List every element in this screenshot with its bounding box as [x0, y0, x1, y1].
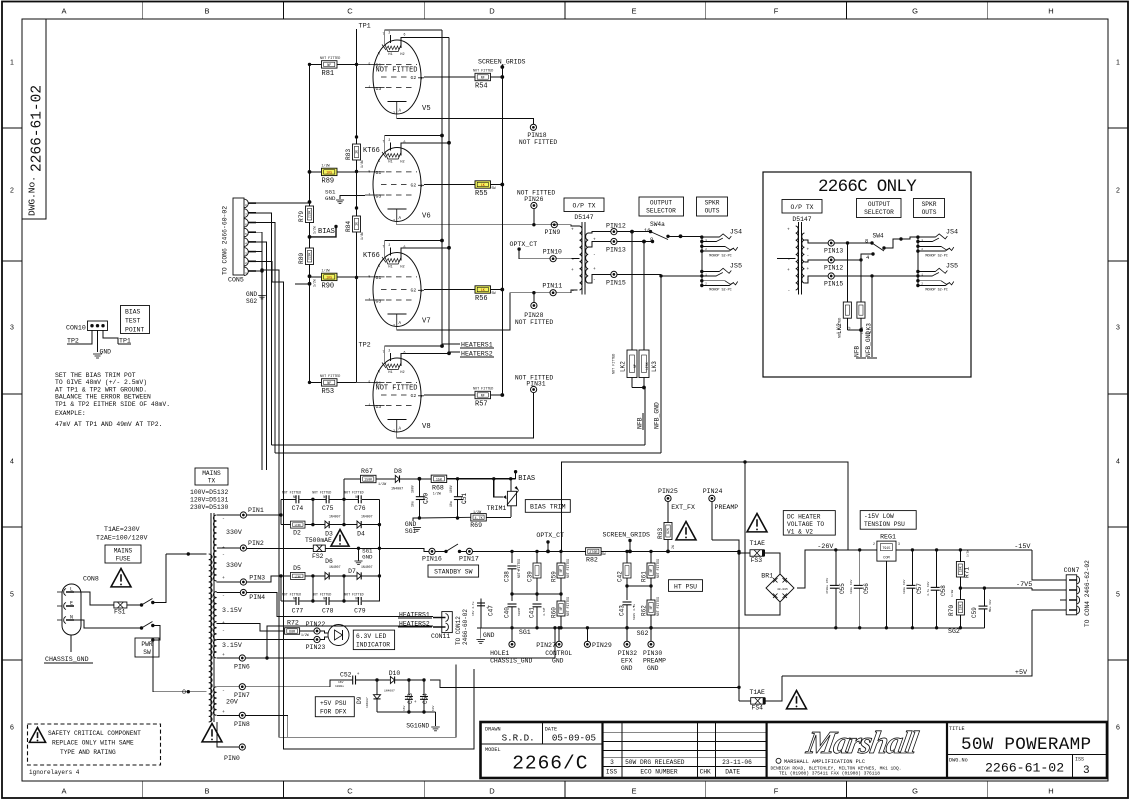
wire R57 to bus	[424, 394, 475, 396]
title block ECO table	[765, 722, 767, 778]
wire +5V to con7	[1032, 609, 1066, 611]
svg-text:330V: 330V	[226, 529, 242, 536]
svg-text:DWG.No.: DWG.No.	[27, 176, 38, 216]
svg-text:-: -	[807, 278, 810, 283]
svg-text:HEATERS1: HEATERS1	[461, 342, 493, 349]
net NFB_GND	[660, 274, 662, 453]
svg-text:R53: R53	[322, 388, 335, 396]
svg-text:NOT FITTED: NOT FITTED	[656, 559, 660, 578]
svg-text:1: 1	[1116, 60, 1120, 67]
svg-text:PIN27: PIN27	[536, 642, 556, 649]
svg-text:NFB_GND: NFB_GND	[654, 402, 661, 429]
pin PIN13 (2266C)	[828, 240, 834, 246]
ground SG1 GND (HT centre tap)	[358, 548, 360, 560]
svg-text:JS5: JS5	[946, 263, 958, 271]
svg-text:TO CON6 2466-60-02: TO CON6 2466-60-02	[222, 206, 229, 275]
svg-text:NOT FITTED: NOT FITTED	[312, 491, 331, 495]
svg-text:+: +	[357, 672, 360, 677]
svg-text:EFX: EFX	[621, 658, 633, 665]
svg-text:LINK: LINK	[645, 362, 649, 370]
svg-text:0: 0	[182, 689, 186, 697]
wire PIN6 run	[245, 628, 555, 658]
pin PIN15 (2266C)	[828, 273, 834, 279]
svg-text:270R: 270R	[589, 551, 597, 555]
svg-text:PIN13: PIN13	[606, 247, 626, 254]
warning triangle bottom	[202, 724, 222, 742]
resistor R68	[431, 475, 447, 482]
wire heater stub 7	[385, 241, 442, 243]
svg-text:NF: NF	[559, 569, 563, 573]
wire V6 anode to OPT top	[397, 222, 578, 227]
svg-text:R90: R90	[322, 282, 335, 290]
svg-text:2266-61-02: 2266-61-02	[985, 761, 1064, 776]
svg-text:-: -	[572, 289, 575, 294]
svg-text:NFB_GND: NFB_GND	[865, 331, 872, 357]
svg-text:PIN15: PIN15	[824, 281, 843, 288]
svg-text:2466-60-02: 2466-60-02	[462, 609, 469, 645]
svg-text:1/4W: 1/4W	[360, 160, 364, 168]
svg-text:NF: NF	[481, 77, 485, 81]
wire PIN4 to heaters1	[247, 593, 433, 617]
svg-text:V6: V6	[422, 213, 431, 221]
wire R90 to grid	[310, 276, 322, 278]
svg-text:TO GIVE 48mV (+/- 2.5mV): TO GIVE 48mV (+/- 2.5mV)	[55, 379, 147, 386]
wire heater bus 2	[401, 37, 449, 39]
pin PIN13 (main)	[611, 238, 617, 244]
svg-text:R70: R70	[948, 605, 955, 616]
wire mains primary top	[166, 553, 207, 555]
svg-text:2: 2	[1116, 188, 1120, 195]
svg-text:GND: GND	[647, 665, 659, 672]
svg-text:D7: D7	[348, 568, 356, 575]
svg-text:KT66: KT66	[363, 252, 380, 260]
svg-text:T1AE=230V: T1AE=230V	[104, 526, 140, 533]
svg-text:C79: C79	[354, 608, 366, 615]
wire 3.15V taps	[217, 624, 270, 632]
svg-text:C75: C75	[322, 505, 334, 512]
svg-text:-: -	[222, 629, 225, 634]
svg-text:1/2W: 1/2W	[378, 482, 387, 487]
svg-text:5: 5	[1116, 592, 1120, 599]
O/P TX primary coil (2266C)	[796, 226, 799, 290]
svg-text:C40: C40	[504, 607, 511, 618]
svg-text:120V=D5131: 120V=D5131	[190, 497, 229, 504]
svg-text:15K: 15K	[436, 478, 443, 482]
svg-text:NOT FITTED: NOT FITTED	[344, 491, 363, 495]
mains transformer heater secondary	[213, 592, 216, 659]
wire heater stub 7	[385, 346, 442, 348]
svg-text:POINT: POINT	[125, 327, 144, 334]
svg-text:NOT FITTED: NOT FITTED	[344, 593, 363, 597]
svg-text:NF: NF	[327, 382, 331, 386]
svg-text:OUTS: OUTS	[922, 209, 937, 216]
pin PIN11	[550, 290, 556, 296]
SPKR OUTS box (main)	[697, 197, 728, 216]
svg-text:SW4a: SW4a	[650, 221, 665, 228]
svg-text:PIN28: PIN28	[524, 312, 543, 319]
pin PIN0	[217, 722, 239, 747]
svg-text:1000u: 1000u	[335, 685, 344, 688]
svg-text:A: A	[61, 787, 66, 796]
svg-text:GND: GND	[405, 521, 417, 528]
svg-text:PIN13: PIN13	[824, 248, 843, 255]
svg-text:1/2W: 1/2W	[322, 268, 331, 273]
diode D2 link	[291, 521, 306, 528]
svg-text:TP2: TP2	[67, 338, 79, 345]
ground GND SG1 (bias)	[413, 518, 419, 521]
svg-text:NOT FITTED: NOT FITTED	[515, 319, 554, 326]
svg-text:1/2W: 1/2W	[313, 279, 317, 287]
svg-text:PIN3: PIN3	[249, 575, 265, 582]
svg-text:330V: 330V	[226, 562, 242, 569]
svg-text:R80: R80	[298, 253, 305, 264]
svg-text:NF: NF	[633, 364, 637, 368]
wire jacks common (2266C)	[901, 237, 918, 239]
svg-text:+: +	[787, 228, 790, 233]
tube V6	[356, 138, 424, 223]
svg-text:NF: NF	[849, 326, 852, 330]
svg-text:2266/C: 2266/C	[512, 753, 588, 775]
box 6.3V LED INDICATOR	[353, 630, 394, 650]
svg-text:1N4007: 1N4007	[391, 488, 403, 492]
svg-text:C47: C47	[488, 605, 495, 616]
pin PIN7	[217, 686, 240, 688]
svg-text:16V: 16V	[403, 705, 406, 711]
svg-text:CHK: CHK	[700, 769, 711, 776]
svg-text:10K: 10K	[959, 566, 963, 572]
pin PIN27 CONTROL GND	[556, 641, 562, 647]
wire CON5 pin1 / gnd	[256, 271, 262, 294]
component R60	[560, 594, 562, 601]
capacitor C58	[935, 548, 938, 551]
svg-text:BALANCE THE ERROR BETWEEN: BALANCE THE ERROR BETWEEN	[55, 394, 151, 401]
svg-text:SCREEN_GRIDS: SCREEN_GRIDS	[603, 532, 651, 539]
svg-text:V5: V5	[422, 105, 431, 113]
svg-text:O/P TX: O/P TX	[790, 204, 813, 211]
box HT PSU	[669, 580, 703, 592]
svg-text:PREAMP: PREAMP	[715, 504, 739, 511]
svg-text:4.7u: 4.7u	[543, 609, 546, 616]
svg-text:47mV AT TP1 AND 49mV AT TP2.: 47mV AT TP1 AND 49mV AT TP2.	[55, 421, 162, 428]
svg-text:10u: 10u	[411, 501, 415, 507]
svg-text:OPTX_CT: OPTX_CT	[536, 532, 564, 539]
resistor R70	[959, 588, 961, 599]
svg-text:TP1: TP1	[119, 338, 131, 345]
component C42	[626, 551, 628, 563]
svg-text:MARSHALL AMPLIFICATION PLC: MARSHALL AMPLIFICATION PLC	[784, 759, 865, 765]
svg-text:DWG.No: DWG.No	[949, 758, 968, 764]
svg-text:NOT FITTED: NOT FITTED	[312, 593, 331, 597]
svg-text:NOT FITTED: NOT FITTED	[376, 385, 418, 393]
svg-text:-: -	[222, 689, 225, 694]
svg-text:NF: NF	[649, 606, 653, 610]
svg-text:FS3: FS3	[751, 557, 763, 564]
warning triangle FS3	[747, 514, 767, 532]
svg-text:TP2: TP2	[359, 342, 371, 350]
chassis ground	[70, 635, 72, 652]
svg-text:NFB: NFB	[854, 346, 861, 357]
svg-text:ECO NUMBER: ECO NUMBER	[640, 769, 677, 776]
svg-text:05-09-05: 05-09-05	[552, 733, 596, 744]
mains transformer core	[210, 513, 212, 722]
svg-text:OPTX_CT: OPTX_CT	[510, 241, 538, 248]
node BIAS	[310, 227, 337, 237]
svg-text:100V: 100V	[411, 485, 415, 493]
wire rect to bias row R67	[343, 479, 345, 499]
svg-text:100u 63V: 100u 63V	[850, 579, 853, 594]
svg-text:BIAS TRIM: BIAS TRIM	[530, 504, 566, 511]
svg-text:OUTPUT: OUTPUT	[868, 201, 891, 208]
svg-text:PIN12: PIN12	[824, 265, 843, 272]
svg-text:C76: C76	[354, 505, 366, 512]
ground below CON10	[97, 330, 99, 352]
wire pin7 to C52	[245, 680, 352, 687]
HT rail	[473, 550, 586, 552]
note: safety critical component box	[28, 724, 161, 765]
resistor R84	[353, 216, 361, 232]
svg-text:R55: R55	[475, 190, 488, 198]
O/P TX secondary coil	[586, 233, 589, 283]
capacitor C56	[858, 548, 861, 551]
SPKR OUTS box (2266C)	[914, 199, 945, 218]
svg-text:82K: 82K	[666, 528, 670, 534]
svg-text:3: 3	[610, 759, 614, 766]
svg-text:C: C	[347, 787, 353, 796]
OUTPUT SELECTOR box (2266C)	[857, 199, 902, 218]
svg-text:F: F	[774, 787, 779, 796]
svg-text:PIN23: PIN23	[306, 644, 326, 651]
wire CON5 pin2 run	[256, 261, 474, 749]
svg-text:GND: GND	[552, 658, 564, 665]
svg-text:D8: D8	[394, 468, 402, 475]
warning triangle FS2	[331, 530, 349, 547]
svg-text:TX: TX	[208, 478, 216, 485]
svg-text:INDICATOR: INDICATOR	[356, 642, 390, 649]
mains transformer HT secondary	[213, 515, 216, 581]
rail +5V	[782, 610, 1032, 676]
svg-text:NOT FITTED: NOT FITTED	[320, 375, 340, 379]
wire HT out to standby	[379, 548, 429, 551]
wire bridge bottom to heater line	[745, 462, 780, 615]
svg-text:-: -	[593, 278, 596, 283]
svg-text:D9: D9	[356, 696, 363, 704]
svg-text:R54: R54	[475, 83, 488, 91]
svg-text:-: -	[593, 253, 596, 258]
svg-text:LK2: LK2	[836, 323, 843, 334]
resistor R71	[959, 548, 962, 551]
svg-text:C39: C39	[527, 571, 534, 582]
svg-text:R72: R72	[287, 620, 299, 627]
svg-text:R81: R81	[322, 70, 335, 78]
svg-text:PIN8: PIN8	[234, 721, 250, 728]
capacitor C47	[480, 598, 482, 628]
svg-text:FS1: FS1	[114, 609, 126, 616]
svg-text:NOT FITTED: NOT FITTED	[656, 597, 660, 616]
svg-text:AT TP1 & TP2 WRT GROUND.: AT TP1 & TP2 WRT GROUND.	[55, 386, 147, 393]
svg-text:HOLE1: HOLE1	[490, 650, 509, 657]
svg-text:FUSE: FUSE	[116, 556, 131, 563]
svg-text:G: G	[912, 7, 918, 16]
ground rail SG1/SG2	[477, 627, 984, 629]
svg-text:PIN16: PIN16	[422, 556, 442, 563]
svg-text:GND: GND	[483, 632, 495, 639]
capacitor C55	[834, 548, 837, 551]
svg-text:E: E	[631, 7, 636, 16]
svg-text:V1 & V2: V1 & V2	[787, 529, 813, 536]
svg-text:FOR DFX: FOR DFX	[320, 709, 347, 716]
wire R90 left	[310, 276, 322, 278]
svg-text:NOT FITTED: NOT FITTED	[376, 67, 418, 75]
svg-text:-15V: -15V	[1014, 543, 1031, 551]
wire gnd to con7	[1060, 599, 1066, 601]
svg-text:SELECTOR: SELECTOR	[864, 209, 894, 216]
svg-text:SCREEN_GRIDS: SCREEN_GRIDS	[478, 59, 526, 66]
wire CON5 pin3 run	[256, 252, 456, 738]
svg-text:SELECTOR: SELECTOR	[646, 208, 676, 215]
svg-text:C78: C78	[322, 608, 334, 615]
svg-text:E: E	[631, 787, 636, 796]
capacitor C59	[983, 586, 986, 589]
svg-text:NOT FITTED: NOT FITTED	[473, 388, 493, 392]
svg-text:100V: 100V	[449, 485, 453, 493]
svg-text:GND: GND	[362, 554, 373, 561]
svg-text:+5V PSU: +5V PSU	[320, 700, 347, 707]
title block left section	[601, 722, 603, 778]
svg-text:R69: R69	[470, 522, 482, 529]
svg-text:PIN0: PIN0	[224, 755, 240, 762]
svg-text:PIN4: PIN4	[249, 594, 265, 601]
svg-text:SW4: SW4	[873, 233, 884, 240]
svg-text:C42: C42	[617, 571, 624, 582]
svg-text:BIAS: BIAS	[518, 475, 535, 483]
wire dc heater run	[562, 462, 849, 551]
capacitor C51	[457, 479, 459, 497]
svg-text:D2: D2	[293, 530, 301, 537]
warning triangle (mains fuse)	[111, 569, 131, 587]
svg-text:-15V LOW: -15V LOW	[864, 513, 894, 520]
svg-text:+: +	[571, 228, 574, 233]
box 2266C ONLY	[763, 172, 971, 377]
svg-text:MAINS: MAINS	[202, 470, 221, 477]
wire heater stub 6	[401, 143, 449, 145]
svg-text:HEATERS1: HEATERS1	[399, 612, 430, 619]
svg-text:MAINS: MAINS	[114, 548, 133, 555]
pin HOLE1 CHASSIS_GND	[509, 641, 515, 647]
component C43	[626, 586, 628, 600]
O/P TX core (2266C)	[797, 222, 799, 295]
svg-text:PIN30: PIN30	[643, 650, 662, 657]
svg-text:EXT_FX: EXT_FX	[671, 504, 695, 511]
svg-text:+5V: +5V	[1015, 669, 1028, 677]
svg-text:LK3: LK3	[651, 361, 658, 372]
O/P TX core	[581, 222, 583, 295]
wire bias bottom row	[419, 516, 470, 519]
svg-text:H: H	[1048, 7, 1053, 16]
resistor R82	[586, 548, 602, 555]
svg-text:-: -	[788, 289, 791, 294]
svg-text:C59: C59	[971, 607, 978, 618]
svg-text:+: +	[593, 238, 596, 243]
svg-text:4: 4	[10, 459, 14, 466]
svg-text:PIN6: PIN6	[234, 664, 250, 671]
pin PIN12 (2266C)	[828, 257, 834, 263]
svg-text:+: +	[807, 248, 810, 253]
svg-text:-: -	[788, 258, 791, 263]
svg-text:+: +	[593, 267, 596, 272]
svg-text:R89: R89	[322, 177, 335, 185]
svg-text:ISS: ISS	[606, 769, 617, 776]
svg-text:NOT FITTED: NOT FITTED	[282, 593, 301, 597]
svg-text:NOT FITTED: NOT FITTED	[519, 139, 558, 146]
title block	[481, 722, 1108, 778]
svg-text:63V: 63V	[432, 705, 435, 711]
wire R53 to grid	[310, 381, 322, 383]
svg-text:40-005: 40-005	[777, 588, 788, 591]
pin PIN9	[551, 222, 557, 228]
svg-text:ISS: ISS	[1075, 757, 1084, 763]
svg-text:T1AE: T1AE	[750, 689, 766, 696]
resistor R63	[664, 523, 672, 540]
resistor R80	[306, 248, 314, 265]
svg-text:D5: D5	[293, 565, 301, 572]
svg-text:1N4007: 1N4007	[329, 515, 341, 519]
svg-text:TENSION PSU: TENSION PSU	[864, 521, 905, 528]
svg-text:T500mAE: T500mAE	[305, 537, 332, 544]
svg-text:C52: C52	[340, 672, 352, 679]
rail -7V5	[960, 587, 1031, 589]
svg-text:50W DRG RELEASED: 50W DRG RELEASED	[625, 759, 685, 766]
svg-text:PWR: PWR	[141, 641, 152, 648]
wire heater stub 6	[401, 248, 449, 250]
wire V8 anode to PIN31	[397, 393, 534, 438]
svg-text:1: 1	[10, 60, 14, 67]
svg-text:2266-61-02: 2266-61-02	[30, 85, 46, 172]
svg-text:SG2: SG2	[637, 630, 649, 637]
wire -7V5 to con7	[1032, 588, 1066, 590]
svg-text:PIN9: PIN9	[545, 229, 561, 236]
box MAINS FUSE	[105, 545, 141, 563]
resistor R57	[475, 391, 491, 398]
diode row D5 D6 D7	[247, 576, 282, 582]
wire R81 to grid	[310, 63, 322, 65]
svg-text:-: -	[222, 517, 225, 522]
component R61	[650, 551, 652, 563]
standby switch contact	[435, 550, 446, 552]
svg-text:C: C	[347, 7, 353, 16]
svg-text:O/P TX: O/P TX	[572, 203, 595, 210]
svg-text:SG2: SG2	[246, 298, 257, 305]
pin PIN18 not fitted	[530, 124, 536, 130]
svg-text:10u: 10u	[449, 501, 453, 507]
component C41	[536, 594, 538, 601]
O/P TX primary coil	[580, 226, 583, 290]
svg-text:R79: R79	[298, 211, 305, 222]
svg-text:16V: 16V	[338, 681, 344, 684]
svg-text:D10: D10	[389, 670, 401, 677]
svg-text:CON7: CON7	[1064, 567, 1080, 574]
capacitor C57	[911, 548, 914, 551]
svg-text:DATE: DATE	[725, 769, 740, 776]
svg-text:CON5: CON5	[228, 277, 244, 284]
svg-text:MONOP S2-PC: MONOP S2-PC	[709, 254, 731, 258]
svg-text:C57: C57	[916, 583, 923, 594]
svg-text:CHASSIS_GND: CHASSIS_GND	[490, 658, 532, 665]
svg-text:PIN12: PIN12	[606, 222, 626, 229]
svg-text:TEST: TEST	[125, 318, 141, 325]
svg-text:EXAMPLE:: EXAMPLE:	[55, 410, 86, 417]
svg-text:TRIM1: TRIM1	[487, 505, 507, 512]
svg-text:4.7K: 4.7K	[474, 517, 483, 521]
